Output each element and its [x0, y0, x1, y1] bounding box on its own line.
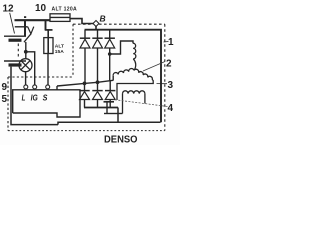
- phase B riser: [112, 76, 114, 81]
- ignition switch V contact: [28, 27, 34, 34]
- dot on column 2: [96, 80, 100, 84]
- regulator box: [13, 90, 80, 117]
- svg-text:4: 4: [168, 103, 174, 114]
- rotor right stub: [144, 94, 146, 104]
- ignition switch feed: [15, 26, 28, 28]
- svg-text:ALT 120A: ALT 120A: [52, 6, 78, 12]
- svg-text:DENSO: DENSO: [104, 135, 138, 145]
- label 10: [35, 3, 47, 14]
- leader 1: [164, 41, 169, 44]
- brush assembly marks: [104, 102, 123, 114]
- switch lower terminal wire: [25, 42, 27, 50]
- stator phase A coil: [133, 43, 136, 59]
- charge lamp: [19, 59, 32, 72]
- terminal S: [46, 85, 50, 89]
- wire junction to lamp: [25, 53, 27, 59]
- wire: fuse to node B: [70, 19, 94, 24]
- bottom wire jog: [58, 122, 161, 124]
- ground bus under rectifier: [84, 107, 118, 109]
- regulator terminals text L IG S: [22, 92, 48, 102]
- stator phase B coil: [113, 69, 134, 76]
- svg-text:1: 1: [168, 37, 174, 48]
- svg-text:15A: 15A: [55, 49, 64, 55]
- battery dotted middle: [17, 44, 19, 60]
- phase A tap dot on D3 column: [108, 52, 112, 56]
- rectifier upper diode D2: [92, 30, 102, 82]
- node B terminal: [93, 21, 99, 27]
- battery positive wire: [24, 20, 26, 36]
- wire lamp to L terminal: [25, 72, 27, 86]
- battery cell 2: [4, 61, 26, 65]
- svg-text:L: L: [22, 92, 26, 102]
- alternator dashed boundary left upper: [72, 24, 74, 77]
- svg-text:10: 10: [35, 3, 47, 14]
- svg-text:2: 2: [166, 58, 172, 69]
- wire junction to IG terminal: [26, 52, 35, 85]
- svg-text:S: S: [43, 92, 48, 102]
- stator phase C coil: [134, 69, 152, 79]
- alternator dashed boundary left lower: [7, 77, 9, 131]
- svg-text:B: B: [100, 14, 106, 24]
- rectifier upper diode D1: [80, 30, 90, 83]
- label 1: [168, 37, 174, 48]
- terminal IG: [33, 85, 37, 89]
- leader from 12 to battery: [10, 13, 15, 34]
- rectifier lower diode D6: [105, 80, 115, 107]
- label 12: [3, 4, 15, 15]
- label 4: [168, 103, 174, 114]
- phase C end wire: [117, 79, 153, 100]
- battery cell 1: [4, 36, 26, 40]
- rotor left stub: [122, 94, 124, 114]
- leader 3: [157, 83, 168, 85]
- leader 2: [143, 62, 165, 72]
- dot on column 1: [83, 82, 87, 86]
- wire nub artifact: [24, 16, 26, 18]
- svg-text:3: 3: [168, 80, 174, 91]
- label B: [100, 14, 106, 24]
- label 2: [166, 58, 172, 69]
- wire regulator to rectifier: [56, 86, 58, 90]
- svg-text:IG: IG: [31, 92, 38, 102]
- rectifier lower diode D5: [92, 82, 102, 107]
- terminal L: [24, 85, 28, 89]
- ground bus drop to bottom wire: [117, 108, 119, 123]
- alternator dashed boundary notch horizontal: [8, 76, 73, 78]
- svg-text:5: 5: [2, 94, 8, 105]
- wire: main top feed from battery to fuse: [15, 19, 51, 21]
- alternator dashed boundary top: [73, 23, 93, 25]
- svg-text:12: 12: [3, 4, 15, 15]
- label ALT 120A: [52, 6, 78, 12]
- wire fuse to S terminal: [47, 54, 49, 86]
- phase bridge line lower: [57, 80, 113, 86]
- leader 4: [113, 100, 168, 107]
- rotor field coil: [123, 91, 145, 94]
- svg-text:ALT: ALT: [55, 44, 64, 50]
- junction dot switch/lamp/IG: [24, 50, 28, 54]
- fuse ALT 15A: [44, 38, 53, 54]
- B+ bus top: [85, 30, 162, 123]
- fuse ALT 15A feed: [45, 20, 47, 30]
- DENSO logo text: [104, 135, 138, 146]
- label 3: [168, 80, 174, 91]
- stator Y centre: [133, 59, 135, 70]
- battery negative wire down left side: [11, 67, 58, 125]
- alternator dashed boundary bottom: [8, 130, 165, 132]
- label 5: [2, 94, 8, 105]
- fuse ALT 120A: [50, 14, 70, 22]
- rectifier lower diode D4: [79, 83, 89, 107]
- svg-text:9: 9: [2, 82, 8, 93]
- phase A wire to stator top coil: [110, 41, 133, 54]
- ignition switch blade: [24, 34, 31, 42]
- label 9: [2, 82, 8, 93]
- alternator dashed boundary right: [164, 24, 166, 130]
- rectifier upper diode D3: [105, 30, 115, 81]
- label ALT 15A: [55, 44, 64, 55]
- wire node B down to bus: [95, 26, 97, 30]
